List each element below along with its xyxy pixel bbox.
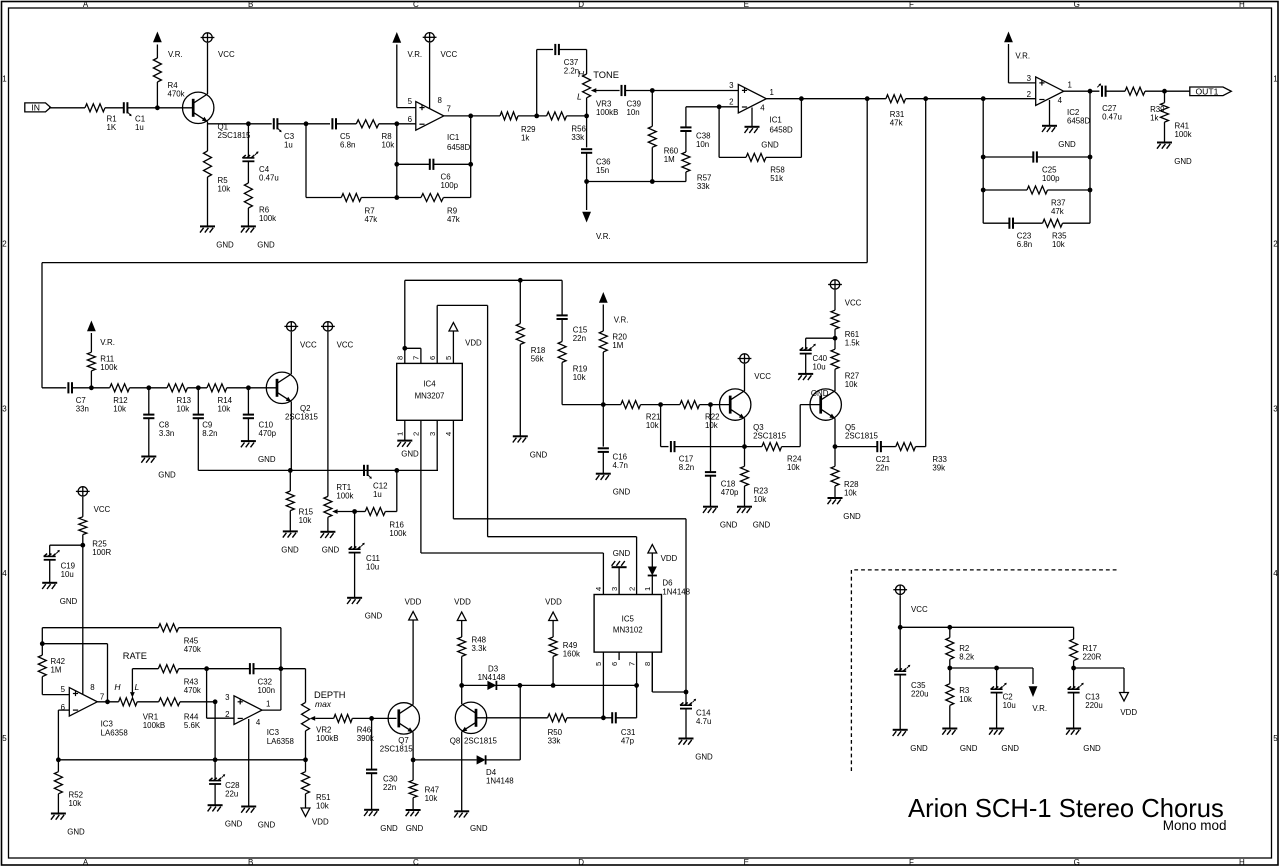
svg-text:7: 7 bbox=[447, 105, 451, 114]
capacitor C23 and resistor R35 bbox=[983, 222, 1009, 224]
wire bias row bbox=[290, 469, 438, 471]
wire pin5 down bbox=[602, 652, 604, 718]
ground stub pin1 bbox=[404, 420, 406, 440]
node bbox=[994, 666, 999, 671]
node bbox=[865, 96, 870, 101]
svg-text:10n: 10n bbox=[627, 108, 640, 117]
capacitor C13 bbox=[1073, 668, 1075, 688]
ground bbox=[942, 728, 957, 730]
wire collector R27 chain bbox=[834, 369, 836, 391]
svg-text:10k: 10k bbox=[754, 495, 767, 504]
connector OUT1 bbox=[1190, 87, 1232, 96]
svg-text:4.7u: 4.7u bbox=[696, 717, 711, 726]
svg-text:7: 7 bbox=[627, 662, 636, 666]
wire bbox=[586, 98, 588, 148]
capacitor C40 bbox=[806, 337, 835, 339]
node bbox=[947, 666, 952, 671]
transistor Q5 bbox=[810, 389, 841, 420]
node bbox=[288, 468, 293, 473]
node bbox=[80, 543, 85, 548]
wire pin4 up bbox=[602, 553, 604, 595]
svg-text:47k: 47k bbox=[890, 119, 903, 128]
wire bbox=[520, 684, 637, 686]
resistor R47 bbox=[412, 760, 414, 780]
transistor Q2 bbox=[266, 372, 297, 403]
svg-text:3: 3 bbox=[610, 587, 619, 591]
svg-text:H: H bbox=[578, 69, 585, 79]
wire feedback right bbox=[470, 116, 472, 198]
ground bbox=[703, 506, 718, 508]
wire feedback left bbox=[396, 124, 398, 198]
svg-text:10k: 10k bbox=[1052, 240, 1065, 249]
svg-text:15n: 15n bbox=[596, 166, 609, 175]
wire pin8 bbox=[429, 43, 431, 109]
node bbox=[981, 188, 986, 193]
svg-text:10k: 10k bbox=[573, 373, 586, 382]
V.R. symbol down bbox=[582, 212, 591, 223]
svg-text:V.R.: V.R. bbox=[408, 50, 423, 59]
node bbox=[394, 468, 399, 473]
wire bbox=[128, 107, 193, 109]
svg-text:VDD: VDD bbox=[465, 339, 482, 348]
svg-text:100kB: 100kB bbox=[316, 734, 338, 743]
wire output bbox=[444, 115, 500, 117]
resistor R46 bbox=[334, 714, 353, 722]
svg-text:8: 8 bbox=[438, 96, 443, 105]
svg-text:10k: 10k bbox=[646, 421, 659, 430]
resistor R5 bbox=[204, 151, 212, 177]
svg-text:1: 1 bbox=[643, 587, 652, 591]
node bbox=[1088, 188, 1093, 193]
ground bbox=[141, 456, 156, 458]
svg-text:GND: GND bbox=[406, 824, 424, 833]
resistor R33 bbox=[881, 446, 896, 448]
svg-text:2: 2 bbox=[412, 432, 421, 436]
wire bbox=[188, 387, 208, 389]
resistor R45 bbox=[42, 627, 158, 629]
capacitor C1 bbox=[123, 102, 125, 113]
svg-text:RATE: RATE bbox=[123, 651, 147, 661]
ground bbox=[320, 531, 335, 533]
node bbox=[1088, 155, 1093, 160]
node bbox=[279, 666, 284, 671]
node bbox=[352, 509, 357, 514]
ground bbox=[200, 225, 215, 227]
resistor R12 bbox=[110, 384, 130, 392]
svg-text:IN: IN bbox=[31, 102, 40, 112]
VCC symbol bbox=[896, 585, 905, 594]
resistor R4 bbox=[156, 45, 158, 59]
svg-text:GND: GND bbox=[613, 488, 631, 497]
VCC symbol bbox=[323, 322, 332, 331]
ground bbox=[208, 804, 223, 806]
resistor R3 bbox=[949, 668, 951, 684]
capacitor C27 bbox=[1101, 86, 1103, 97]
wire bbox=[336, 123, 356, 125]
svg-text:10u: 10u bbox=[366, 563, 379, 572]
node bbox=[584, 179, 589, 184]
svg-text:H: H bbox=[1239, 858, 1245, 867]
svg-text:10k: 10k bbox=[845, 380, 858, 389]
wire bbox=[207, 43, 209, 94]
capacitor C28 bbox=[214, 760, 216, 780]
svg-text:IC1: IC1 bbox=[770, 116, 782, 125]
svg-text:1N4148: 1N4148 bbox=[486, 777, 514, 786]
svg-text:470p: 470p bbox=[259, 429, 277, 438]
svg-text:VCC: VCC bbox=[94, 505, 111, 514]
svg-text:GND: GND bbox=[258, 821, 276, 830]
ground bbox=[406, 809, 421, 811]
svg-text:GND: GND bbox=[761, 141, 779, 150]
resistor R7 bbox=[306, 197, 341, 199]
op-amp IC1 unit A bbox=[416, 102, 444, 131]
wire R33 return vertical bbox=[925, 99, 927, 447]
ground bbox=[1066, 728, 1081, 730]
wire collector bbox=[744, 364, 746, 391]
svg-text:2SC1815: 2SC1815 bbox=[753, 432, 787, 441]
node bbox=[799, 96, 804, 101]
capacitor C39 bbox=[621, 85, 623, 96]
ground bbox=[364, 809, 379, 811]
svg-text:22u: 22u bbox=[225, 790, 238, 799]
capacitor C32 bbox=[207, 668, 250, 670]
pin4 wire bbox=[452, 420, 454, 519]
op-amp IC1 unit B bbox=[738, 84, 766, 113]
svg-text:E: E bbox=[744, 858, 749, 867]
ground bbox=[989, 728, 1004, 730]
svg-text:C: C bbox=[413, 858, 419, 867]
svg-text:Q3: Q3 bbox=[753, 423, 764, 432]
svg-text:8: 8 bbox=[643, 662, 652, 666]
IC IC5 MN3102 bbox=[594, 595, 661, 653]
svg-text:100kB: 100kB bbox=[143, 721, 165, 730]
capacitor C12 bbox=[363, 465, 365, 476]
svg-text:10k: 10k bbox=[425, 794, 438, 803]
node bbox=[1162, 89, 1167, 94]
svg-text:GND: GND bbox=[258, 455, 276, 464]
svg-text:5: 5 bbox=[61, 685, 66, 694]
node bbox=[584, 114, 589, 119]
svg-text:A: A bbox=[83, 858, 89, 867]
resistor R49 bbox=[549, 612, 558, 621]
svg-text:MN3102: MN3102 bbox=[613, 626, 643, 635]
capacitor C38 bbox=[685, 107, 687, 128]
svg-text:GND: GND bbox=[1058, 140, 1076, 149]
node bbox=[708, 402, 713, 407]
svg-text:GND: GND bbox=[753, 521, 771, 530]
wire feed row bbox=[405, 279, 562, 281]
svg-text:10k: 10k bbox=[69, 799, 82, 808]
node bbox=[742, 444, 747, 449]
svg-text:L: L bbox=[577, 92, 582, 102]
op-amp IC3 unit B bbox=[234, 696, 262, 725]
svg-text:33k: 33k bbox=[697, 182, 710, 191]
ground bbox=[893, 729, 908, 731]
svg-text:VCC: VCC bbox=[218, 50, 235, 59]
svg-text:220u: 220u bbox=[911, 689, 929, 698]
wire Q8 emitter bbox=[461, 732, 463, 812]
svg-text:VDD: VDD bbox=[405, 598, 422, 607]
svg-text:100k: 100k bbox=[259, 214, 276, 223]
capacitor C7 bbox=[67, 382, 69, 393]
svg-text:GND: GND bbox=[401, 450, 419, 459]
VCC symbol bbox=[203, 33, 212, 42]
ground stub pin4 bbox=[751, 108, 753, 127]
node bbox=[468, 162, 473, 167]
svg-text:GND: GND bbox=[843, 512, 861, 521]
wire collector bbox=[412, 620, 414, 705]
svg-text:1M: 1M bbox=[664, 155, 675, 164]
potentiometer VR2 DEPTH bbox=[302, 702, 310, 731]
capacitor C18 bbox=[710, 405, 712, 472]
svg-text:GND: GND bbox=[60, 597, 78, 606]
svg-text:5: 5 bbox=[408, 97, 413, 106]
svg-text:VDD: VDD bbox=[1120, 708, 1137, 717]
svg-text:GND: GND bbox=[158, 471, 176, 480]
svg-text:33k: 33k bbox=[548, 737, 561, 746]
wire output bbox=[766, 98, 886, 100]
resistor R23 bbox=[744, 447, 746, 467]
wire emitter bbox=[834, 418, 836, 446]
svg-text:5.6K: 5.6K bbox=[184, 721, 201, 730]
svg-text:4: 4 bbox=[256, 718, 261, 727]
capacitor C3 bbox=[273, 118, 275, 129]
svg-text:1: 1 bbox=[1068, 81, 1072, 90]
capacitor C35 bbox=[899, 627, 901, 670]
wire bbox=[626, 90, 739, 92]
node bbox=[717, 104, 722, 109]
node bbox=[402, 346, 407, 351]
resistor R6 bbox=[247, 161, 249, 183]
wire fb bbox=[42, 643, 107, 645]
svg-text:10u: 10u bbox=[813, 363, 826, 372]
resistor R29 bbox=[500, 112, 518, 120]
svg-text:10u: 10u bbox=[1003, 701, 1016, 710]
svg-text:1u: 1u bbox=[135, 123, 144, 132]
svg-text:6: 6 bbox=[428, 356, 437, 360]
svg-text:10u: 10u bbox=[61, 570, 74, 579]
resistor R21 bbox=[603, 404, 621, 406]
wire V+ to pin8 bbox=[82, 545, 84, 694]
wire bbox=[906, 98, 1036, 100]
svg-text:470p: 470p bbox=[721, 488, 739, 497]
svg-text:H: H bbox=[114, 682, 121, 692]
resistor R11 bbox=[90, 333, 92, 352]
svg-text:IC4: IC4 bbox=[423, 380, 436, 389]
svg-text:5: 5 bbox=[594, 662, 603, 666]
svg-text:GND: GND bbox=[216, 241, 234, 250]
capacitor C6 bbox=[397, 163, 430, 165]
svg-text:10k: 10k bbox=[299, 516, 312, 525]
capacitor C36 bbox=[581, 148, 592, 150]
wire bbox=[305, 731, 307, 760]
svg-text:10k: 10k bbox=[705, 421, 718, 430]
resistor R2 bbox=[949, 627, 951, 637]
pin 6 stub bbox=[618, 652, 620, 660]
svg-text:1: 1 bbox=[2, 75, 7, 84]
potentiometer VR3 TONE bbox=[583, 74, 591, 98]
capacitor C21 bbox=[835, 446, 877, 448]
svg-text:A: A bbox=[83, 0, 89, 9]
capacitor C25 bbox=[983, 156, 1033, 158]
svg-text:10k: 10k bbox=[787, 463, 800, 472]
svg-text:160k: 160k bbox=[563, 650, 580, 659]
svg-text:1K: 1K bbox=[107, 123, 117, 132]
svg-text:4: 4 bbox=[1273, 569, 1278, 578]
resistor R44 bbox=[159, 698, 180, 706]
svg-text:47k: 47k bbox=[1051, 207, 1064, 216]
svg-text:VDD: VDD bbox=[312, 818, 329, 827]
svg-text:max: max bbox=[315, 699, 332, 709]
node bbox=[534, 114, 539, 119]
op-amp IC2 bbox=[1036, 77, 1064, 106]
VCC symbol bbox=[78, 487, 87, 496]
svg-text:3: 3 bbox=[2, 404, 7, 413]
node bbox=[518, 278, 523, 283]
svg-text:GND: GND bbox=[1174, 157, 1192, 166]
resistor R16 bbox=[355, 511, 366, 513]
svg-text:2: 2 bbox=[225, 710, 229, 719]
svg-text:GND: GND bbox=[530, 451, 548, 460]
svg-text:V.R.: V.R. bbox=[100, 338, 115, 347]
svg-text:GND: GND bbox=[470, 824, 488, 833]
node bbox=[468, 114, 473, 119]
svg-text:4: 4 bbox=[760, 104, 765, 113]
VCC symbol bbox=[425, 33, 434, 42]
node bbox=[246, 121, 251, 126]
capacitor C10 bbox=[247, 388, 249, 415]
node bbox=[213, 699, 218, 704]
ground bbox=[596, 473, 611, 475]
node bbox=[684, 690, 689, 695]
svg-text:F: F bbox=[909, 858, 914, 867]
node bbox=[650, 88, 655, 93]
svg-text:100p: 100p bbox=[1042, 174, 1060, 183]
node bbox=[518, 683, 523, 688]
wire pin5 bbox=[397, 107, 416, 109]
node bbox=[981, 155, 986, 160]
resistor R61 bbox=[831, 310, 839, 329]
svg-text:6458D: 6458D bbox=[1067, 116, 1091, 125]
wire bbox=[105, 107, 123, 109]
svg-text:10k: 10k bbox=[218, 185, 231, 194]
svg-text:100kB: 100kB bbox=[596, 108, 618, 117]
svg-text:VCC: VCC bbox=[441, 50, 458, 59]
node bbox=[196, 385, 201, 390]
svg-text:39k: 39k bbox=[932, 464, 945, 473]
node bbox=[394, 121, 399, 126]
resistor R31 bbox=[886, 95, 906, 103]
svg-text:2: 2 bbox=[1027, 90, 1031, 99]
wire bbox=[208, 123, 272, 125]
wiper wire bbox=[338, 511, 355, 513]
node bbox=[601, 715, 606, 720]
svg-text:GND: GND bbox=[910, 744, 928, 753]
svg-text:1.5k: 1.5k bbox=[845, 339, 860, 348]
svg-text:8.2n: 8.2n bbox=[202, 429, 217, 438]
svg-text:22n: 22n bbox=[383, 783, 396, 792]
svg-text:V.R.: V.R. bbox=[596, 232, 611, 241]
wiper wire VR2 bbox=[315, 717, 334, 719]
svg-text:2SC1815: 2SC1815 bbox=[464, 737, 498, 746]
VCC symbol bbox=[287, 322, 296, 331]
node bbox=[833, 336, 838, 341]
svg-text:1: 1 bbox=[396, 432, 405, 436]
svg-text:2SC1815: 2SC1815 bbox=[285, 413, 319, 422]
VCC symbol bbox=[740, 354, 749, 363]
op-amp IC3 unit A bbox=[69, 688, 97, 717]
svg-text:GND: GND bbox=[720, 521, 738, 530]
dashed partition bbox=[851, 570, 1116, 772]
node bbox=[601, 402, 606, 407]
svg-text:GND: GND bbox=[225, 820, 243, 829]
node bbox=[650, 179, 655, 184]
resistor R19 bbox=[561, 319, 563, 342]
svg-text:2SC1815: 2SC1815 bbox=[218, 131, 252, 140]
svg-text:51k: 51k bbox=[770, 174, 783, 183]
resistor R37 bbox=[983, 189, 1027, 191]
wire pin2 up bbox=[636, 537, 638, 595]
node bbox=[394, 162, 399, 167]
svg-text:VDD: VDD bbox=[661, 554, 678, 563]
svg-text:100k: 100k bbox=[336, 492, 353, 501]
svg-text:3: 3 bbox=[729, 81, 734, 90]
resistor R50 bbox=[548, 714, 567, 722]
capacitor C8 bbox=[148, 388, 150, 415]
capacitor C17 row bbox=[660, 405, 662, 447]
svg-text:VCC: VCC bbox=[300, 341, 317, 350]
V.R. symbol bbox=[392, 32, 401, 43]
svg-text:Q5: Q5 bbox=[845, 423, 856, 432]
wire long feed bbox=[866, 99, 868, 263]
svg-text:470k: 470k bbox=[184, 686, 201, 695]
svg-text:4: 4 bbox=[594, 587, 603, 591]
svg-text:4: 4 bbox=[2, 569, 7, 578]
wire output bbox=[97, 701, 118, 703]
resistor R8 bbox=[356, 120, 379, 128]
svg-text:VCC: VCC bbox=[754, 372, 771, 381]
svg-text:GND: GND bbox=[811, 389, 829, 398]
svg-text:V.R.: V.R. bbox=[614, 316, 629, 325]
svg-text:33n: 33n bbox=[76, 405, 89, 414]
svg-text:TONE: TONE bbox=[593, 70, 619, 80]
VDD symbol bbox=[409, 612, 418, 621]
wire collector bbox=[290, 332, 292, 374]
node bbox=[459, 683, 464, 688]
wire output bbox=[262, 709, 281, 711]
svg-text:Q8: Q8 bbox=[450, 737, 461, 746]
inverted ground pin3 bbox=[618, 567, 620, 594]
svg-text:VDD: VDD bbox=[545, 598, 562, 607]
svg-text:8: 8 bbox=[396, 356, 405, 360]
resistor R57 bbox=[685, 131, 687, 152]
node bbox=[56, 757, 61, 762]
capacitor C11 bbox=[354, 512, 356, 549]
svg-text:F: F bbox=[909, 0, 914, 9]
svg-text:100k: 100k bbox=[100, 363, 117, 372]
wire bbox=[327, 517, 329, 532]
svg-text:3: 3 bbox=[428, 432, 437, 436]
capacitor C19 bbox=[50, 544, 83, 546]
svg-text:LA6358: LA6358 bbox=[267, 737, 295, 746]
svg-text:10k: 10k bbox=[959, 695, 972, 704]
svg-text:10k: 10k bbox=[177, 405, 190, 414]
wire pins7-8 feed bbox=[404, 280, 406, 363]
wire C37 loop bbox=[536, 50, 538, 116]
pin2 wire bbox=[420, 420, 422, 553]
resistor R17 bbox=[1073, 627, 1075, 639]
capacitor C15 bbox=[561, 280, 563, 315]
